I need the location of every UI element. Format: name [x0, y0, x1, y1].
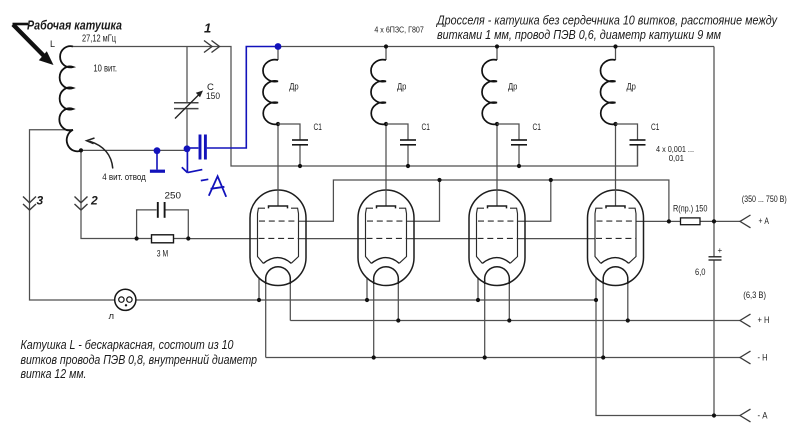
svg-text:150: 150 [206, 91, 220, 102]
svg-text:С1: С1 [651, 122, 659, 132]
svg-text:+ Н: + Н [758, 315, 770, 326]
svg-text:+ А: + А [759, 216, 770, 227]
svg-text:(6,3 В): (6,3 В) [743, 290, 766, 300]
svg-text:витков провода ПЭВ 0,8, внутре: витков провода ПЭВ 0,8, внутренний диаме… [21, 353, 258, 367]
svg-text:L: L [50, 39, 55, 49]
svg-text:2: 2 [90, 194, 98, 208]
svg-text:3: 3 [37, 194, 44, 208]
svg-text:10 вит.: 10 вит. [93, 64, 117, 75]
svg-text:6,0: 6,0 [695, 267, 706, 277]
svg-text:С1: С1 [533, 122, 541, 132]
svg-text:С1: С1 [422, 122, 430, 132]
svg-text:Др: Др [397, 82, 406, 93]
svg-text:витка 12 мм.: витка 12 мм. [21, 367, 87, 381]
svg-text:Др: Др [627, 82, 636, 93]
svg-text:Рабочая катушка: Рабочая катушка [27, 17, 122, 32]
svg-text:С1: С1 [314, 122, 322, 132]
svg-text:Катушка L - бескаркасная, сост: Катушка L - бескаркасная, состоит из 10 [21, 338, 234, 352]
svg-text:3 М: 3 М [157, 248, 168, 259]
svg-text:Др: Др [289, 82, 298, 93]
svg-text:Дросселя - катушка без сердечн: Дросселя - катушка без сердечника 10 вит… [435, 13, 778, 28]
svg-text:27,12 мГц: 27,12 мГц [82, 34, 116, 45]
svg-text:- А: - А [758, 411, 769, 422]
svg-text:- Н: - Н [758, 353, 768, 364]
svg-text:4 х 6ПЗС, Г807: 4 х 6ПЗС, Г807 [374, 24, 424, 34]
svg-text:+: + [718, 246, 723, 255]
svg-text:4 вит. отвод: 4 вит. отвод [102, 172, 146, 183]
svg-text:витками 1 мм, провод ПЭВ 0,6,: витками 1 мм, провод ПЭВ 0,6, диаметр ка… [437, 27, 721, 42]
svg-text:250: 250 [165, 190, 182, 201]
svg-text:0,01: 0,01 [669, 153, 685, 163]
svg-text:(350 ... 750 В): (350 ... 750 В) [742, 194, 787, 204]
svg-text:л: л [109, 311, 115, 322]
svg-text:Др: Др [508, 82, 517, 93]
svg-text:1: 1 [204, 20, 211, 35]
svg-text:R(пр.) 150: R(пр.) 150 [673, 204, 707, 214]
